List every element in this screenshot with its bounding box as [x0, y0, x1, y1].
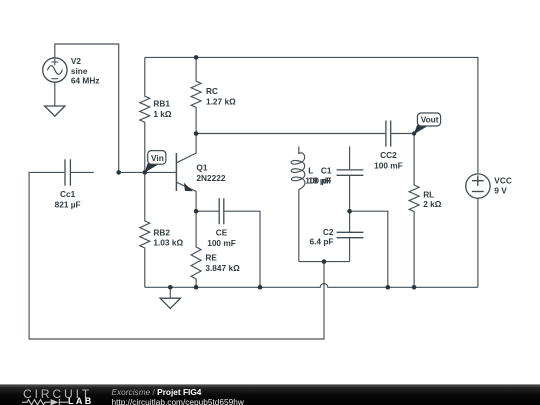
svg-text:1.27 kΩ: 1.27 kΩ [206, 96, 236, 106]
wire V2 bottom to ground [54, 83, 56, 106]
wire collector rail to CC2 [196, 133, 385, 135]
svg-text:64 MHz: 64 MHz [71, 76, 100, 86]
resistor RL [409, 185, 419, 287]
source V2 minus [51, 78, 58, 80]
inductor L [291, 146, 305, 261]
resistor RC [191, 57, 201, 133]
capacitor C1 plates [337, 170, 364, 175]
capacitor CE plates [219, 198, 224, 224]
wire C1-C2 tap to right and down [350, 211, 388, 287]
svg-text:Q1: Q1 [196, 162, 207, 172]
svg-text:RB1: RB1 [153, 98, 170, 108]
svg-text:9 V: 9 V [494, 186, 507, 196]
ground symbol main [160, 298, 180, 308]
capacitor CC2 plates [386, 121, 391, 147]
svg-text:Vout: Vout [421, 115, 439, 125]
svg-text:V2: V2 [71, 56, 82, 66]
svg-text:C1: C1 [321, 165, 332, 175]
svg-text:CC2: CC2 [380, 150, 397, 160]
svg-text:Vin: Vin [151, 153, 164, 163]
svg-text:sine: sine [71, 66, 88, 76]
wire V2 top to Vin node [55, 44, 119, 172]
svg-text:821 µF: 821 µF [55, 199, 81, 209]
svg-text:100 mF: 100 mF [374, 160, 403, 170]
svg-text:RB2: RB2 [153, 227, 170, 237]
capacitor C1 bottom lead [349, 176, 351, 211]
svg-text:RE: RE [205, 253, 217, 263]
wire CE right down to rail [225, 211, 261, 287]
node label Vout [414, 113, 441, 134]
svg-text:L: L [308, 165, 313, 175]
svg-text:2N2222: 2N2222 [196, 173, 225, 183]
wire tank bottom rail [299, 261, 350, 263]
ground symbol V2 [45, 106, 65, 116]
wire Cc1 right stub (dangling) [70, 171, 94, 173]
svg-text:2 kΩ: 2 kΩ [423, 199, 442, 209]
svg-text:100 pF: 100 pF [305, 176, 331, 186]
svg-text:RC: RC [206, 86, 218, 96]
svg-text:6.4 pF: 6.4 pF [310, 237, 334, 247]
wire Vin node horizontal to base [119, 171, 177, 173]
source VCC plus [472, 176, 484, 186]
transistor Q1 emitter arrow [185, 184, 192, 191]
svg-text:CE: CE [216, 228, 228, 238]
wire ground stub [169, 287, 171, 298]
resistor RE [191, 211, 201, 287]
svg-text:VCC: VCC [494, 175, 512, 185]
resistor RB2 [140, 172, 150, 287]
source VCC circle [466, 174, 490, 198]
capacitor C1 top lead [349, 146, 351, 169]
wire emitter row to CE [196, 210, 218, 212]
node label Vin [145, 151, 166, 173]
resistor RB1 [140, 57, 150, 172]
wire Cc1 left + feedback loop bottom [29, 172, 324, 339]
wire top rail (VCC rail) [145, 57, 478, 173]
svg-text:100 mF: 100 mF [207, 238, 236, 248]
svg-text:RL: RL [423, 190, 434, 200]
footer bar [0, 384, 540, 405]
capacitor C2 plates [337, 232, 364, 237]
source V2 sine [47, 66, 62, 75]
capacitor Cc1 plates [65, 159, 70, 186]
source V2 plus [51, 59, 58, 66]
capacitor C2 leads [349, 211, 351, 261]
svg-text:Cc1: Cc1 [60, 189, 76, 199]
wire VCC bottom [477, 199, 479, 287]
wire CC2 right to Vout corner and down [391, 134, 414, 186]
svg-text:1 kΩ: 1 kΩ [153, 109, 172, 119]
source V2 circle [43, 58, 67, 82]
source VCC minus [472, 191, 484, 193]
transistor Q1 base bar [175, 153, 177, 191]
svg-text:1.03 kΩ: 1.03 kΩ [153, 238, 183, 248]
wire bottom rail with hop [145, 284, 478, 288]
svg-text:3.847 kΩ: 3.847 kΩ [205, 263, 240, 273]
transistor Q1 emitter [176, 182, 196, 211]
transistor Q1 collector [176, 134, 196, 163]
